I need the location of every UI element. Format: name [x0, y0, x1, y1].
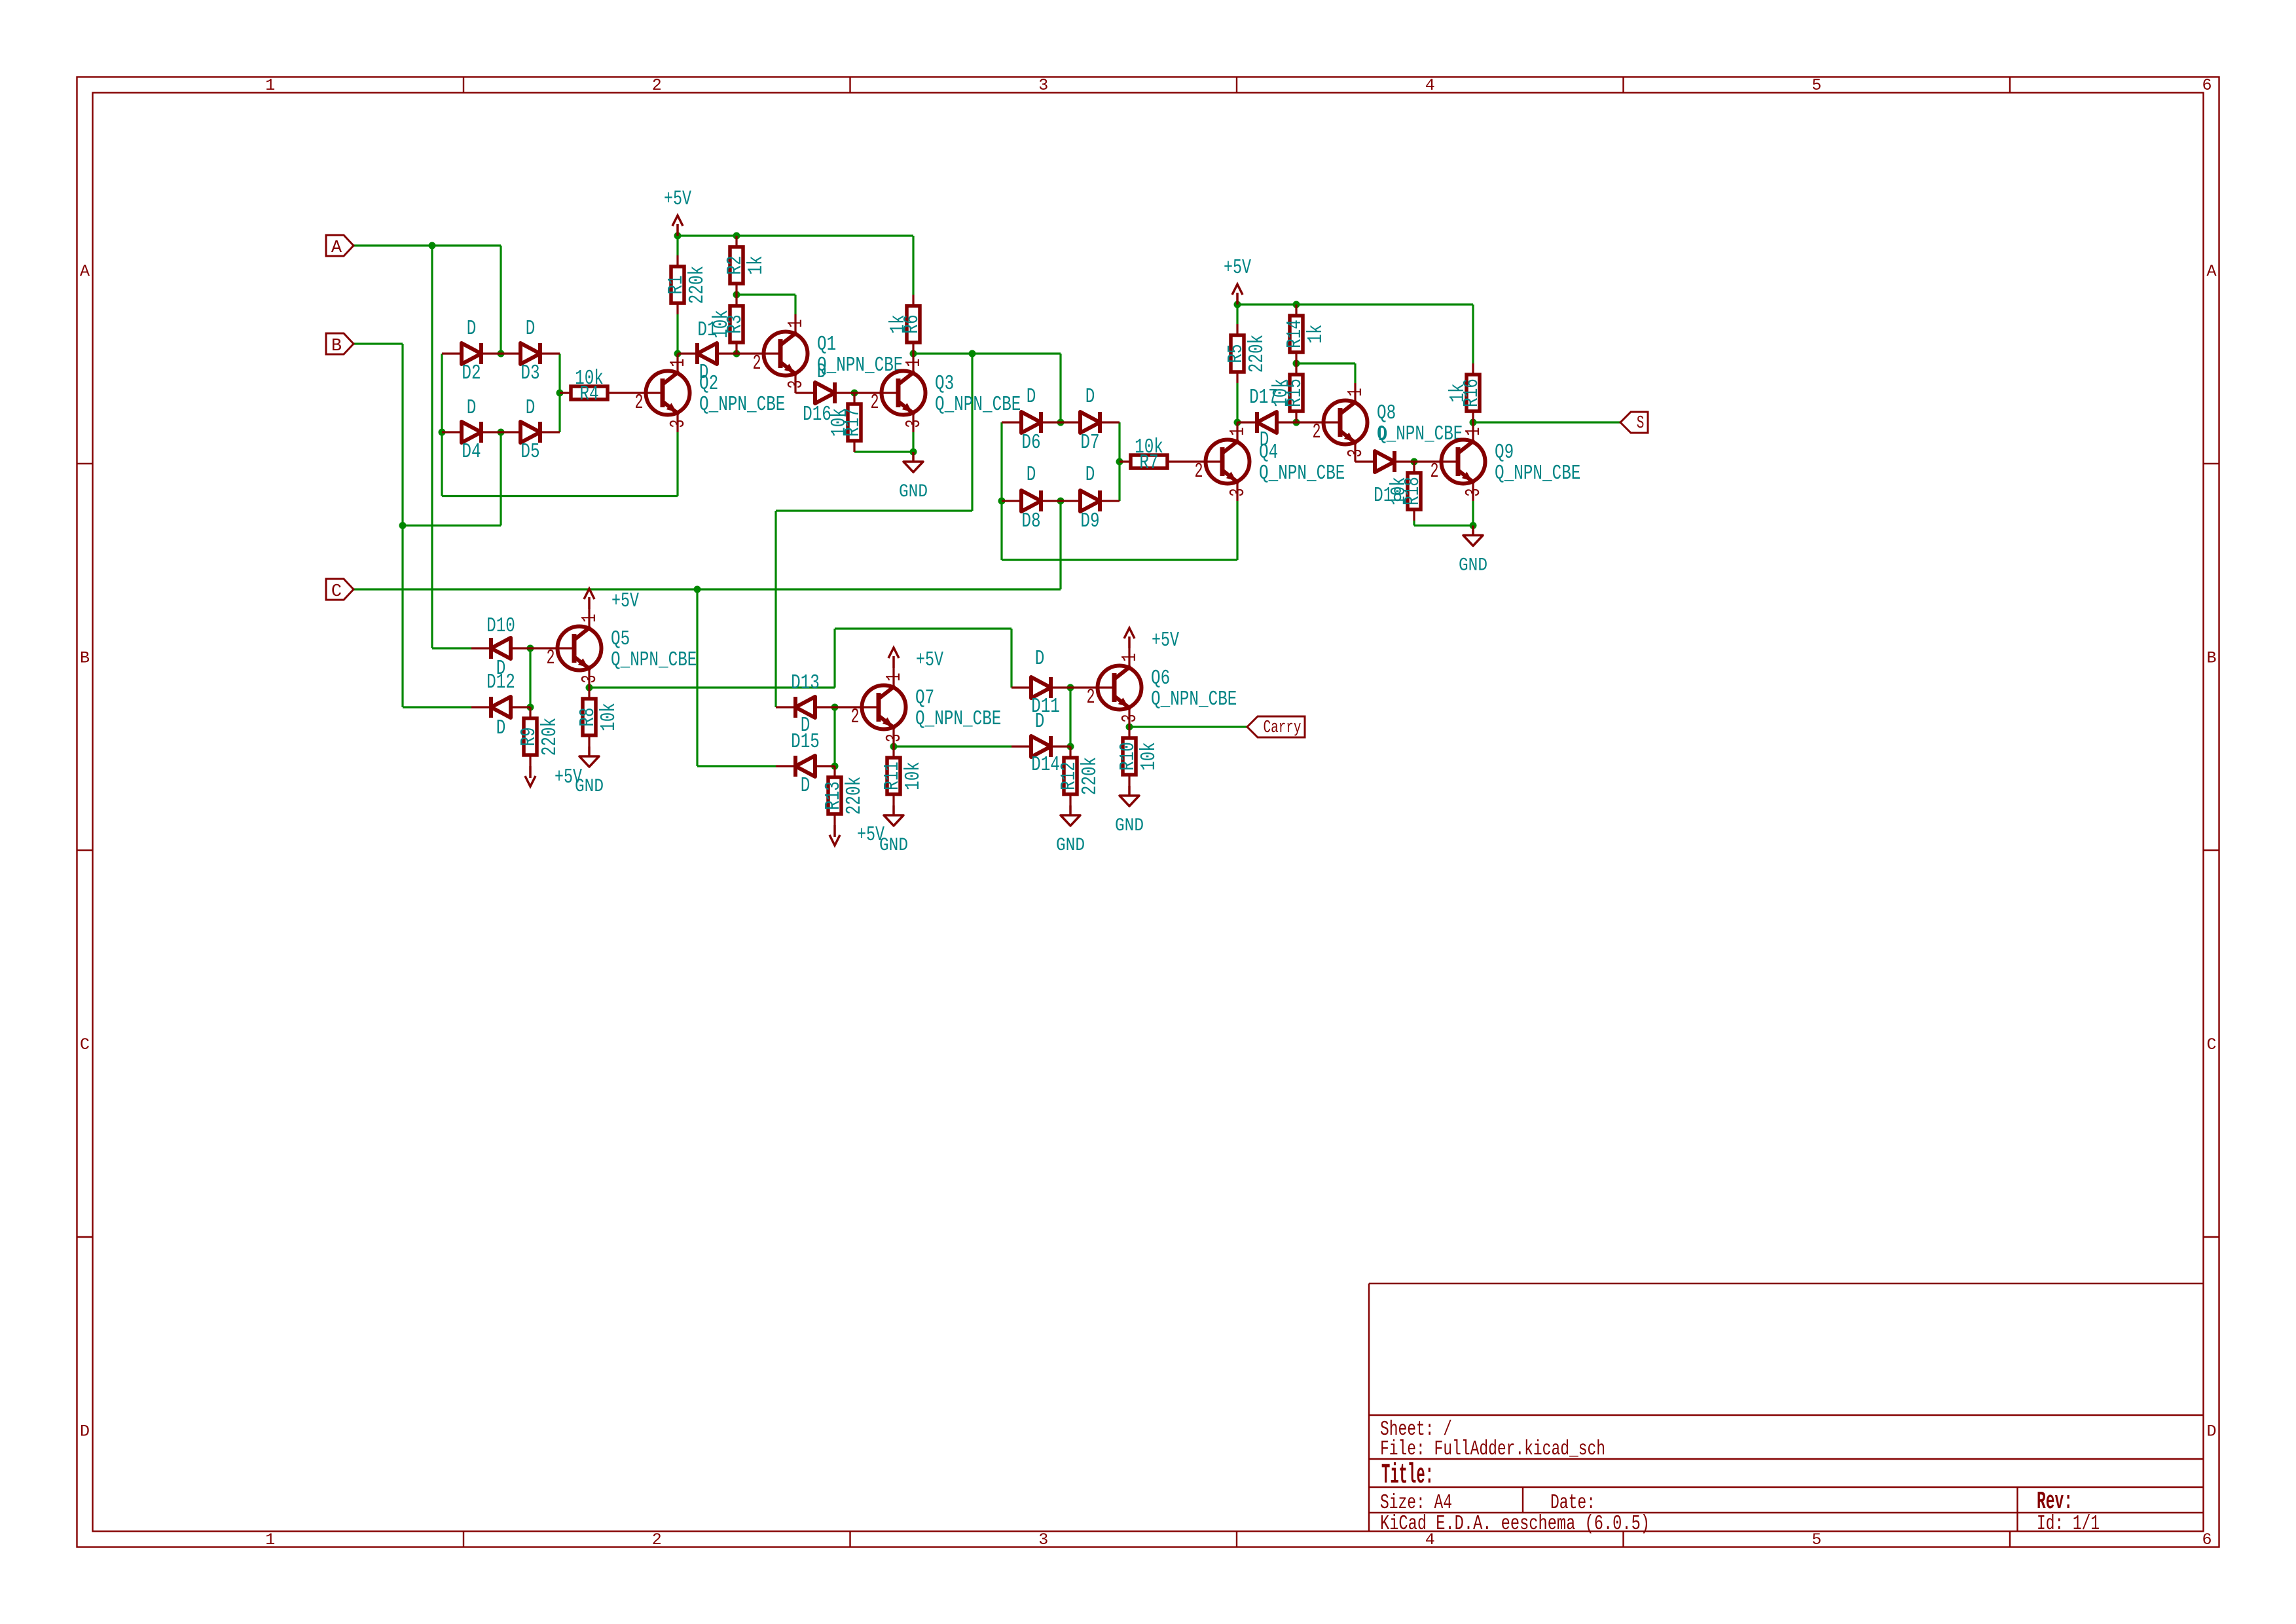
svg-text:D: D	[467, 397, 477, 420]
svg-text:5: 5	[1812, 76, 1821, 95]
svg-text:D12: D12	[486, 671, 515, 694]
svg-text:Q_NPN_CBE: Q_NPN_CBE	[1259, 462, 1345, 485]
svg-text:3: 3	[1038, 1530, 1048, 1549]
svg-text:3: 3	[1038, 76, 1048, 95]
svg-text:D: D	[1035, 648, 1045, 671]
svg-text:R2: R2	[724, 255, 747, 274]
svg-text:R10: R10	[1117, 742, 1140, 771]
svg-text:D: D	[1085, 386, 1095, 409]
svg-text:5: 5	[1812, 1530, 1821, 1549]
svg-text:10k: 10k	[575, 367, 604, 390]
svg-text:6: 6	[2202, 1530, 2212, 1549]
svg-text:+5V: +5V	[1152, 629, 1179, 652]
svg-text:Q9: Q9	[1495, 441, 1514, 464]
svg-text:2: 2	[652, 76, 662, 95]
svg-text:2: 2	[547, 647, 555, 670]
svg-text:GND: GND	[1459, 556, 1487, 576]
svg-text:Id: 1/1: Id: 1/1	[2037, 1513, 2100, 1536]
svg-text:Carry: Carry	[1264, 718, 1302, 738]
svg-text:R9: R9	[518, 727, 541, 746]
svg-text:3: 3	[1227, 489, 1250, 497]
svg-text:+5V: +5V	[916, 649, 943, 672]
svg-text:C: C	[2206, 1035, 2216, 1054]
svg-text:1: 1	[667, 359, 690, 367]
svg-text:10k: 10k	[598, 703, 621, 731]
svg-text:D17: D17	[1249, 386, 1278, 409]
svg-text:B: B	[2206, 648, 2216, 667]
svg-text:2: 2	[1087, 686, 1095, 709]
svg-text:2: 2	[753, 352, 761, 375]
svg-text:Q7: Q7	[915, 687, 934, 710]
svg-text:GND: GND	[1115, 816, 1144, 836]
svg-text:R11: R11	[881, 762, 904, 790]
svg-text:B: B	[80, 648, 90, 667]
svg-text:D: D	[1035, 710, 1045, 733]
svg-text:Q_NPN_CBE: Q_NPN_CBE	[1495, 462, 1580, 485]
svg-text:Q_NPN_CBE: Q_NPN_CBE	[611, 649, 697, 672]
svg-text:3: 3	[579, 675, 602, 684]
svg-text:Rev:: Rev:	[2037, 1488, 2073, 1516]
svg-text:D14: D14	[1031, 754, 1060, 777]
svg-text:R13: R13	[822, 781, 845, 810]
svg-text:Q_NPN_CBE: Q_NPN_CBE	[915, 708, 1001, 731]
svg-text:D7: D7	[1080, 432, 1099, 454]
svg-text:D2: D2	[462, 362, 481, 385]
svg-text:D13: D13	[791, 672, 820, 695]
svg-text:1: 1	[1119, 654, 1142, 662]
svg-text:R12: R12	[1058, 762, 1081, 790]
svg-text:1: 1	[903, 359, 926, 367]
svg-text:D: D	[801, 775, 811, 798]
svg-text:D1: D1	[697, 319, 716, 342]
svg-text:D16: D16	[803, 403, 831, 426]
svg-text:A: A	[2206, 262, 2216, 281]
svg-text:220k: 220k	[843, 777, 866, 815]
svg-text:1k: 1k	[745, 255, 768, 274]
svg-text:1: 1	[1345, 388, 1368, 397]
svg-text:D: D	[467, 318, 477, 341]
svg-text:2: 2	[1313, 421, 1321, 444]
svg-text:1: 1	[265, 1530, 275, 1549]
svg-text:1: 1	[579, 614, 602, 623]
svg-text:A: A	[80, 262, 90, 281]
svg-text:R1: R1	[665, 275, 688, 294]
svg-text:D15: D15	[791, 731, 820, 754]
svg-text:+5V: +5V	[611, 590, 639, 613]
svg-text:1k: 1k	[887, 314, 910, 333]
svg-text:3: 3	[1463, 489, 1485, 497]
svg-text:1k: 1k	[1447, 383, 1470, 402]
svg-text:Size: A4: Size: A4	[1380, 1492, 1452, 1515]
svg-text:Q8: Q8	[1377, 402, 1396, 425]
svg-text:D: D	[526, 397, 536, 420]
svg-text:R8: R8	[577, 707, 600, 726]
svg-text:GND: GND	[879, 836, 908, 856]
svg-text:D: D	[1085, 464, 1095, 487]
svg-text:C: C	[331, 582, 342, 602]
svg-text:2: 2	[851, 706, 860, 729]
svg-text:Q5: Q5	[611, 628, 630, 651]
svg-text:B: B	[331, 337, 342, 356]
svg-text:+5V: +5V	[1224, 257, 1251, 280]
svg-text:D4: D4	[462, 441, 481, 464]
svg-text:3: 3	[883, 734, 906, 743]
svg-text:220k: 220k	[539, 718, 562, 756]
svg-text:Q_NPN_CBE: Q_NPN_CBE	[935, 394, 1021, 416]
svg-text:220k: 220k	[1079, 757, 1102, 795]
svg-text:Q6: Q6	[1151, 667, 1170, 690]
svg-text:10k: 10k	[1138, 742, 1161, 771]
svg-text:3: 3	[903, 420, 926, 428]
svg-text:3: 3	[667, 420, 690, 428]
svg-text:2: 2	[635, 392, 644, 415]
svg-text:Q3: Q3	[935, 373, 954, 396]
svg-text:GND: GND	[899, 482, 928, 502]
svg-text:1: 1	[265, 76, 275, 95]
svg-text:Date:: Date:	[1550, 1492, 1595, 1515]
svg-text:D18: D18	[1374, 485, 1402, 507]
svg-text:3: 3	[1345, 449, 1368, 458]
svg-text:Q2: Q2	[699, 373, 718, 396]
svg-text:D: D	[80, 1422, 90, 1441]
svg-text:GND: GND	[1056, 836, 1085, 856]
svg-text:S: S	[1637, 414, 1645, 434]
svg-text:+5V: +5V	[664, 188, 691, 211]
svg-text:10k: 10k	[902, 762, 925, 790]
svg-text:10k: 10k	[1135, 436, 1163, 459]
svg-text:3: 3	[785, 380, 808, 389]
svg-text:A: A	[331, 238, 342, 258]
svg-text:D: D	[2206, 1422, 2216, 1441]
svg-text:D: D	[496, 717, 506, 740]
svg-text:1: 1	[1227, 428, 1250, 436]
svg-text:1: 1	[1463, 428, 1485, 436]
svg-text:GND: GND	[575, 777, 604, 797]
svg-text:D: D	[1027, 386, 1036, 409]
svg-text:R14: R14	[1284, 320, 1307, 348]
svg-text:10k: 10k	[828, 408, 851, 437]
svg-text:Q_NPN_CBE: Q_NPN_CBE	[699, 394, 785, 416]
svg-text:220k: 220k	[1246, 335, 1269, 373]
svg-text:D10: D10	[486, 615, 515, 638]
svg-text:D6: D6	[1021, 432, 1040, 454]
svg-text:Title:: Title:	[1381, 1459, 1434, 1491]
svg-text:220k: 220k	[686, 266, 709, 304]
svg-text:File: FullAdder.kicad_sch: File: FullAdder.kicad_sch	[1380, 1438, 1605, 1461]
svg-text:KiCad E.D.A. eeschema (6.0.5): KiCad E.D.A. eeschema (6.0.5)	[1380, 1513, 1650, 1536]
svg-text:D: D	[526, 318, 536, 341]
svg-text:2: 2	[871, 392, 879, 415]
svg-text:2: 2	[1430, 460, 1439, 483]
svg-text:1k: 1k	[1305, 324, 1328, 343]
svg-text:D: D	[1027, 464, 1036, 487]
svg-text:C: C	[80, 1035, 90, 1054]
svg-text:4: 4	[1425, 76, 1435, 95]
svg-text:Q4: Q4	[1259, 441, 1278, 464]
svg-text:3: 3	[1119, 714, 1142, 723]
svg-text:2: 2	[652, 1530, 662, 1549]
svg-text:Q1: Q1	[817, 333, 836, 356]
svg-text:6: 6	[2202, 76, 2212, 95]
svg-text:1: 1	[785, 320, 808, 328]
svg-text:D9: D9	[1080, 510, 1099, 533]
svg-text:2: 2	[1195, 460, 1203, 483]
svg-text:D8: D8	[1021, 510, 1040, 533]
svg-text:Q_NPN_CBE: Q_NPN_CBE	[1151, 688, 1237, 711]
svg-text:D5: D5	[520, 441, 539, 464]
svg-text:R5: R5	[1225, 344, 1248, 363]
svg-text:1: 1	[883, 673, 906, 682]
svg-text:D3: D3	[520, 362, 539, 385]
